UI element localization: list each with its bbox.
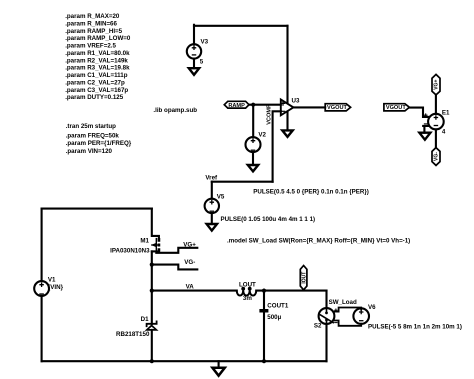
wire -in VCOMP	[273, 111, 281, 181]
svg-text:RAMP: RAMP	[228, 103, 245, 109]
wire V5 bottom	[211, 213, 213, 224]
svg-text:4: 4	[442, 128, 446, 135]
svg-text:.param C1_VAL=111p: .param C1_VAL=111p	[65, 72, 128, 79]
svg-text:.model SW_Load SW(Ron={R_MAX}: .model SW_Load SW(Ron={R_MAX} Roff={R_MI…	[227, 237, 410, 244]
svg-text:VG+: VG+	[434, 80, 440, 90]
svg-text:.param C3_VAL=167p: .param C3_VAL=167p	[65, 87, 128, 94]
S2 ctrl marks	[335, 309, 337, 311]
svg-text:{VIN}: {VIN}	[48, 284, 64, 291]
ground	[282, 130, 292, 136]
wire V3 bottom	[193, 59, 195, 69]
wire V3 top	[193, 25, 195, 45]
svg-text:VGOUT: VGOUT	[386, 105, 406, 111]
wire VA	[152, 290, 327, 292]
svg-text:.param R_MAX=20: .param R_MAX=20	[65, 13, 120, 20]
wire M1 source down	[151, 251, 153, 324]
svg-text:V1: V1	[48, 277, 56, 284]
tran directive	[66, 123, 132, 155]
wire V2 top	[252, 105, 254, 138]
node junction COUT	[262, 289, 266, 293]
svg-text:3m: 3m	[243, 295, 252, 302]
svg-text:.lib opamp.sub: .lib opamp.sub	[153, 107, 197, 114]
svg-text:PULSE(0.5 4.5 0 {PER} 0.1n 0.1: PULSE(0.5 4.5 0 {PER} 0.1n 0.1n {PER})	[253, 189, 369, 196]
svg-text:.param VREF=2.5: .param VREF=2.5	[65, 43, 116, 50]
svg-text:.param R1_VAL=80.0k: .param R1_VAL=80.0k	[65, 50, 130, 57]
node junction	[150, 263, 154, 267]
wire U3 supply	[286, 26, 288, 103]
svg-text:VG-: VG-	[184, 259, 195, 266]
svg-text:.param R2_VAL=149k: .param R2_VAL=149k	[65, 57, 128, 64]
svg-text:PULSE(0 1.05 100u 4m 4m 1 1 1): PULSE(0 1.05 100u 4m 4m 1 1 1)	[221, 216, 316, 223]
node junction VA	[150, 289, 154, 293]
wire V1 bottom	[41, 296, 43, 361]
wire top rail	[194, 25, 288, 27]
wire S2 top	[325, 291, 327, 309]
svg-text:V5: V5	[217, 194, 225, 201]
node junction	[262, 359, 266, 363]
wire RAMP to +in	[249, 104, 281, 106]
param text block	[65, 13, 131, 101]
wire input rect top	[42, 208, 152, 210]
op-amp U3	[281, 97, 300, 115]
svg-text:.param R_MIN=66: .param R_MIN=66	[65, 21, 117, 28]
wire M1 drain	[152, 209, 159, 239]
svg-text:.param R3_VAL=19.8k: .param R3_VAL=19.8k	[65, 65, 130, 72]
E source E1	[424, 109, 450, 135]
wire input rect left	[41, 209, 43, 282]
svg-text:.tran 25m startup: .tran 25m startup	[66, 123, 116, 130]
wire D1 bottom	[151, 330, 153, 361]
wire V5 top	[211, 182, 213, 199]
svg-text:COUT1: COUT1	[267, 302, 289, 309]
ground	[189, 68, 199, 75]
wire S2 ctrl plus	[334, 308, 361, 312]
svg-text:VG-: VG-	[434, 152, 440, 161]
svg-text:VA: VA	[186, 283, 195, 290]
wire Vref	[212, 181, 273, 183]
flag VG+	[432, 74, 440, 95]
wire U3 Vminus	[286, 112, 288, 130]
svg-text:U3: U3	[292, 97, 300, 104]
voltage source V5	[205, 194, 315, 223]
svg-text:.param PER={1/FREQ}: .param PER={1/FREQ}	[66, 140, 132, 147]
svg-text:D1: D1	[141, 316, 149, 323]
svg-text:IPA030N10N3: IPA030N10N3	[110, 247, 150, 254]
svg-text:VCOMP: VCOMP	[267, 104, 273, 125]
wire E1 minus ctrl	[423, 126, 428, 133]
svg-text:5: 5	[200, 58, 204, 65]
voltage source V1	[34, 277, 63, 296]
flag VGOUT out	[325, 104, 350, 112]
wire bottom rail	[42, 360, 327, 362]
svg-text:S2: S2	[314, 323, 322, 330]
svg-text:V6: V6	[368, 304, 376, 311]
svg-text:.param C2_VAL=27p: .param C2_VAL=27p	[65, 79, 125, 86]
flag VGOUT in	[384, 104, 410, 112]
svg-text:RB218T150: RB218T150	[116, 331, 150, 338]
wire E1 bottom	[435, 129, 437, 147]
svg-text:V3: V3	[201, 39, 209, 46]
svg-text:E1: E1	[442, 109, 450, 116]
wire U3 out	[293, 106, 325, 108]
nmos M1	[110, 237, 159, 254]
svg-text:PULSE(-5 5 8m 1n 1n 2m 10m 1): PULSE(-5 5 8m 1n 1n 2m 10m 1)	[368, 324, 462, 331]
ground	[207, 224, 217, 231]
wire S2 bottom	[325, 324, 327, 361]
wire gate stub VG+	[156, 248, 197, 253]
inductor LOUT	[237, 282, 257, 303]
flag VG-	[432, 148, 440, 166]
svg-text:LOUT: LOUT	[239, 282, 256, 289]
svg-text:.param RAMP_LOW=0: .param RAMP_LOW=0	[65, 35, 131, 42]
capacitor COUT1	[259, 302, 288, 321]
svg-text:VGOUT: VGOUT	[327, 105, 347, 111]
wire source stub VG-	[152, 265, 198, 270]
wire COUT top	[263, 291, 265, 310]
svg-text:Vref: Vref	[205, 174, 218, 181]
wire VGOUT to E1	[409, 108, 428, 117]
flag IOUT	[300, 266, 307, 290]
svg-text:SW_Load: SW_Load	[329, 299, 357, 306]
voltage source V2	[246, 131, 267, 152]
wire COUT bottom	[263, 313, 265, 361]
ground	[419, 133, 430, 140]
svg-text:.param VIN=120: .param VIN=120	[66, 148, 113, 155]
wire E1 top	[435, 95, 437, 114]
wire V2 bottom	[252, 152, 254, 165]
svg-text:.param RAMP_HI=5: .param RAMP_HI=5	[65, 28, 122, 35]
ground	[248, 165, 258, 171]
voltage source V3	[187, 39, 209, 66]
node junction	[251, 103, 255, 107]
ground bottom	[218, 361, 220, 368]
svg-text:500µ: 500µ	[267, 314, 281, 321]
wire S2 ctrl minus	[334, 321, 361, 326]
svg-text:.param FREQ=50k: .param FREQ=50k	[66, 133, 120, 140]
diode D1	[116, 316, 157, 338]
svg-text:M1: M1	[140, 237, 149, 244]
svg-text:V2: V2	[258, 131, 266, 138]
svg-text:.param DUTY=0.125: .param DUTY=0.125	[65, 94, 124, 101]
flag RAMP	[224, 101, 249, 109]
switch S2	[314, 299, 357, 330]
svg-text:IOUT: IOUT	[301, 272, 307, 284]
svg-text:VG+: VG+	[183, 241, 196, 248]
voltage source V6	[353, 304, 461, 331]
node junction	[150, 359, 154, 363]
